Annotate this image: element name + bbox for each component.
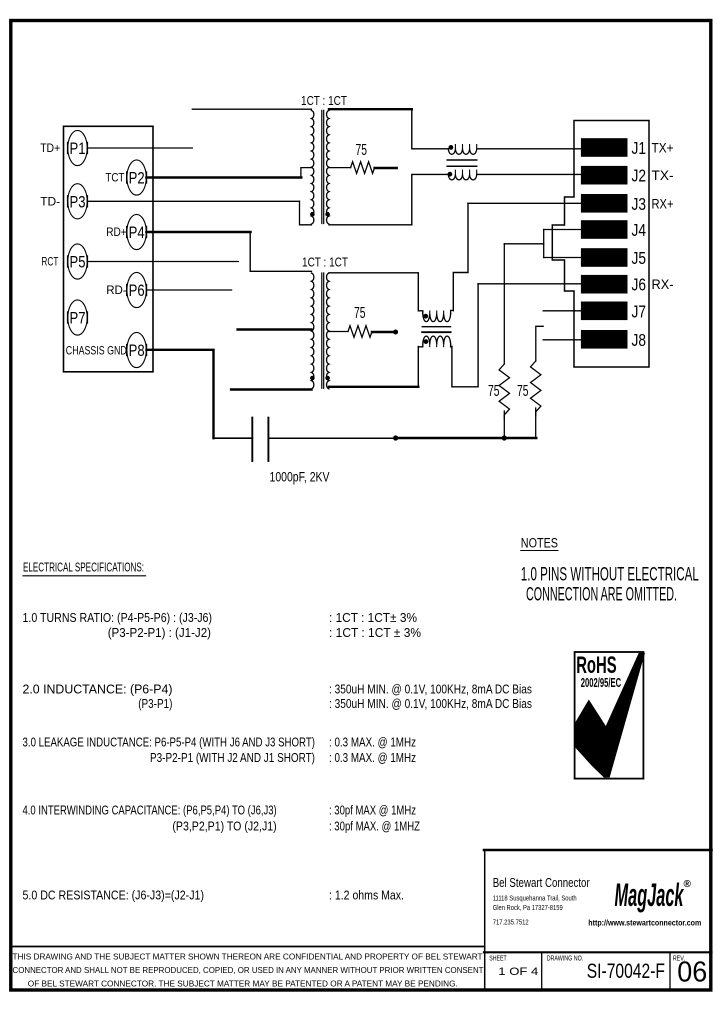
svg-text:J4: J4	[632, 220, 647, 240]
T2 primary phase dot	[310, 376, 315, 381]
svg-text:RD-: RD-	[106, 283, 127, 297]
svg-text:4.0 INTERWINDING CAPACITANCE:: 4.0 INTERWINDING CAPACITANCE: (P6,P5,P4)…	[23, 804, 277, 818]
T1 secondary phase dot	[325, 212, 330, 217]
svg-text:RCT: RCT	[41, 255, 58, 269]
transformer T1 core	[322, 110, 324, 223]
svg-text:06: 06	[677, 957, 707, 989]
L1 top phase dot	[449, 145, 454, 150]
spec 5.0 dc resistance	[23, 889, 405, 903]
svg-text:: 1.2 ohms Max.: : 1.2 ohms Max.	[329, 889, 404, 903]
svg-text:J1: J1	[632, 138, 647, 158]
svg-text:P5: P5	[70, 253, 86, 272]
wire R4 hook	[536, 326, 543, 361]
R4 bottom lead	[535, 408, 537, 438]
choke L1 top coil ticks	[455, 145, 476, 149]
spec 4.0 interwinding capacitance line 2	[172, 820, 420, 834]
svg-text:DRAWING NO.: DRAWING NO.	[547, 956, 584, 963]
svg-text:TX-: TX-	[652, 167, 674, 183]
pin P3	[68, 184, 88, 219]
heading ELECTRICAL SPECIFICATIONS	[23, 561, 146, 576]
disclaimer box top edge	[11, 946, 484, 948]
T2 secondary phase dot	[325, 376, 330, 381]
pin P2	[127, 160, 147, 195]
svg-text:TCT: TCT	[105, 171, 125, 185]
svg-text:: 30pf MAX. @ 1MHZ: : 30pf MAX. @ 1MHZ	[329, 820, 420, 834]
wire P1 to T1 left top	[87, 147, 192, 149]
choke L2 core	[422, 326, 450, 328]
wire T1 sec bottom to choke	[329, 174, 448, 224]
choke L2 bottom right jog	[451, 344, 452, 347]
R3 bottom lead	[503, 411, 505, 438]
svg-text:11118 Susquehanna Trail, South: 11118 Susquehanna Trail, South	[493, 896, 577, 903]
R2 right stub (thick)	[372, 331, 393, 333]
contact J8	[581, 330, 646, 350]
svg-text:RX-: RX-	[652, 276, 674, 292]
choke L2 bottom coil	[423, 336, 451, 344]
svg-text:(P3,P2,P1) TO (J2,J1): (P3,P2,P1) TO (J2,J1)	[172, 820, 276, 834]
svg-text:Glen Rock, Pa 17327-8159: Glen Rock, Pa 17327-8159	[493, 905, 563, 912]
svg-text:1 OF 4: 1 OF 4	[498, 966, 538, 978]
wire T1 sec top to choke L1 (thick)	[329, 108, 412, 110]
svg-text:5.0 DC RESISTANCE: (J6-J3)=(J: 5.0 DC RESISTANCE: (J6-J3)=(J2-J1)	[23, 889, 205, 903]
capacitor C1 left plate	[251, 418, 253, 461]
choke L1 top coil	[448, 149, 476, 155]
choke L1 bottom coil	[448, 174, 476, 180]
connector P-block outline	[64, 126, 154, 371]
wire T2 left bottom (thick)	[231, 388, 311, 391]
svg-text:: 0.3 MAX. @ 1MHz: : 0.3 MAX. @ 1MHz	[329, 751, 416, 765]
svg-text:: 30pf MAX @ 1MHz: : 30pf MAX @ 1MHz	[329, 804, 416, 818]
svg-text:1CT : 1CT: 1CT : 1CT	[301, 93, 347, 108]
svg-text:SI-70042-F: SI-70042-F	[587, 960, 665, 983]
transformer T1 secondary winding	[327, 110, 329, 224]
wire P4 corner down to T2	[250, 232, 311, 271]
svg-text:P3-P2-P1 (WITH J2 AND J1 SHORT: P3-P2-P1 (WITH J2 AND J1 SHORT)	[150, 751, 315, 765]
pin P8	[127, 332, 147, 367]
wire capacitor to node	[268, 437, 395, 439]
node dot at R2 stub	[393, 330, 398, 335]
contact J2	[581, 166, 646, 186]
wire T1 sec top corner to choke	[412, 109, 449, 149]
svg-text:CONNECTOR AND SHALL NOT BE REP: CONNECTOR AND SHALL NOT BE REPRODUCED, C…	[13, 965, 484, 975]
svg-text:75: 75	[356, 142, 368, 159]
svg-text:MagJack: MagJack	[615, 877, 685, 913]
svg-text:: 1CT : 1CT± 3%: : 1CT : 1CT± 3%	[329, 611, 417, 625]
wire T1 left bottom step	[300, 201, 312, 225]
svg-text:Bel Stewart Connector: Bel Stewart Connector	[493, 875, 590, 890]
svg-text:3.0 LEAKAGE INDUCTANCE: P6-P: 3.0 LEAKAGE INDUCTANCE: P6-P5-P4 (WITH J…	[23, 736, 316, 750]
wire P5 stub	[87, 261, 238, 263]
svg-text:J7: J7	[632, 301, 647, 321]
svg-text:P1: P1	[70, 139, 86, 158]
choke L2 bottom coil ticks	[430, 344, 451, 347]
wire R3 top lead	[503, 244, 505, 364]
resistor R4 75 ohm	[531, 361, 541, 416]
R1 right stub (thick)	[375, 167, 397, 169]
contact J4	[581, 220, 646, 240]
pin P7	[68, 300, 88, 335]
contact J6	[581, 275, 646, 295]
contact J3	[581, 194, 646, 214]
T1 primary phase dot	[310, 212, 315, 217]
svg-text:J2: J2	[632, 166, 647, 186]
svg-text:J8: J8	[632, 330, 647, 350]
spec 2.0 inductance line 2	[138, 697, 532, 711]
svg-text:NOTES: NOTES	[521, 536, 558, 551]
wire R3 top to J4/J5 bracket	[504, 243, 543, 245]
node dot capacitor bus	[393, 435, 398, 440]
wire T2 sec tap to R2	[329, 331, 348, 333]
wire T1 left top lead	[192, 108, 311, 110]
svg-text:P6: P6	[129, 281, 145, 300]
svg-text:1CT : 1CT: 1CT : 1CT	[302, 255, 348, 270]
spec 1.0 turns ratio line 2	[108, 626, 421, 640]
choke L2 top coil	[423, 314, 451, 322]
wire T1 sec tap to R1	[329, 167, 351, 169]
svg-text:P2: P2	[129, 169, 145, 188]
wire choke L2 top right to J3	[453, 203, 468, 310]
wire P6 stub	[147, 289, 232, 291]
pin P1	[68, 130, 88, 165]
svg-text:J3: J3	[632, 194, 647, 214]
wire P8 chassis to capacitor (thick)	[147, 350, 214, 438]
svg-text:: 350uH MIN. @ 0.1V, 100KHz,: : 350uH MIN. @ 0.1V, 100KHz, 8mA DC Bias	[329, 683, 532, 697]
resistor R1 75 ohm	[351, 162, 375, 174]
choke L2 bottom left jog	[418, 344, 423, 347]
contact J7	[581, 301, 646, 321]
svg-text:P4: P4	[129, 223, 145, 242]
choke L1 core	[447, 160, 477, 166]
connector J-block outline with jogged left edge	[552, 121, 649, 368]
choke L2 top right jog	[451, 310, 454, 313]
wire T2 left center tap (thick)	[238, 328, 312, 331]
svg-text:http://www.stewartconnector.co: http://www.stewartconnector.com	[588, 919, 701, 928]
contact J5	[581, 248, 646, 268]
svg-text:ELECTRICAL SPECIFICATIONS:: ELECTRICAL SPECIFICATIONS:	[23, 561, 144, 575]
svg-text:: 0.3 MAX. @ 1MHz: : 0.3 MAX. @ 1MHz	[329, 736, 416, 750]
svg-text:P8: P8	[129, 341, 145, 360]
wire termination bus (thick)	[396, 437, 537, 440]
MagJack logo	[615, 877, 692, 913]
svg-text:2002/95/EC: 2002/95/EC	[581, 675, 622, 690]
wire J6	[478, 283, 581, 285]
svg-text:CHASSIS GND: CHASSIS GND	[66, 344, 127, 358]
pin P6	[127, 272, 147, 307]
contact J1	[581, 138, 646, 158]
svg-text:1000pF, 2KV: 1000pF, 2KV	[270, 469, 330, 485]
svg-text:CONNECTION ARE OMITTED.: CONNECTION ARE OMITTED.	[526, 585, 677, 606]
svg-text:TD+: TD+	[40, 141, 60, 155]
svg-text:RD+: RD+	[106, 225, 127, 239]
transformer T1 primary winding	[311, 110, 313, 224]
wire P2 to T1 center tap (thick)	[147, 176, 302, 179]
capacitor C1 right plate	[267, 418, 269, 461]
svg-text:1.0 PINS WITHOUT ELECTRICAL: 1.0 PINS WITHOUT ELECTRICAL	[521, 565, 699, 586]
svg-text:: 1CT : 1CT ± 3%: : 1CT : 1CT ± 3%	[329, 626, 421, 640]
wire J5	[544, 257, 581, 259]
transformer T2 primary winding	[311, 273, 313, 389]
wire J8	[543, 339, 581, 341]
wire J4-J5 bracket	[543, 230, 545, 258]
heading NOTES	[521, 536, 558, 551]
wire P3 to T1 left bottom	[87, 200, 299, 202]
svg-text:75: 75	[517, 383, 529, 400]
wire choke L1 to J1	[477, 148, 581, 150]
wire P4 to T2 top (thick)	[147, 231, 251, 234]
wire choke L1 to J2	[477, 173, 581, 175]
spec 3.0 leakage inductance line 1	[23, 736, 417, 750]
svg-text:(P3-P1): (P3-P1)	[138, 697, 172, 711]
svg-text:J6: J6	[632, 275, 647, 295]
svg-text:TX+: TX+	[652, 140, 674, 156]
RoHS checkmark	[575, 653, 645, 778]
title block outline	[484, 850, 712, 990]
wire J7	[543, 310, 581, 312]
transformer T2 core	[322, 273, 324, 388]
svg-text:OF BEL STEWART CONNECTOR. THE: OF BEL STEWART CONNECTOR. THE SUBJECT MA…	[28, 979, 458, 989]
choke L2 top coil ticks	[430, 311, 451, 314]
wire J4	[544, 229, 581, 231]
transformer T2 secondary winding	[327, 273, 329, 389]
resistor R3 75 ohm	[499, 364, 509, 419]
svg-text:P3: P3	[70, 192, 86, 211]
svg-text:P7: P7	[70, 309, 86, 328]
wire T2 sec top to choke L2	[329, 273, 423, 314]
wire capacitor left lead	[214, 437, 253, 439]
wire T1 left tap step	[301, 168, 312, 178]
RoHS logo box	[575, 652, 644, 779]
spec 3.0 leakage inductance line 2	[150, 751, 416, 765]
spec 1.0 turns ratio line 1	[23, 611, 418, 625]
svg-text:SHEET: SHEET	[489, 956, 507, 963]
L2 top phase dot	[423, 314, 428, 319]
resistor R2 75 ohm	[348, 326, 372, 338]
wire J3	[468, 202, 581, 204]
L2 bottom phase dot	[424, 339, 429, 344]
svg-text:75: 75	[488, 383, 500, 400]
svg-text:2.0 INDUCTANCE: (P6-P4): 2.0 INDUCTANCE: (P6-P4)	[23, 683, 173, 697]
spec 4.0 interwinding capacitance line 1	[23, 804, 417, 818]
svg-text:: 350uH MIN. @ 0.1V, 100KHz,: : 350uH MIN. @ 0.1V, 100KHz, 8mA DC Bias	[329, 697, 532, 711]
pin P4	[127, 214, 147, 249]
svg-text:1.0 TURNS RATIO: (P4-P5-P6) :: 1.0 TURNS RATIO: (P4-P5-P6) : (J3-J6)	[23, 611, 213, 625]
choke L1 bottom coil ticks	[455, 170, 476, 174]
svg-text:(P3-P2-P1) : (J1-J2): (P3-P2-P1) : (J1-J2)	[108, 626, 211, 640]
L1 bottom phase dot	[448, 172, 453, 177]
svg-text:RX+: RX+	[652, 195, 674, 211]
wire choke L2 bottom left lead	[417, 347, 419, 387]
wire T2 sec bottom to choke L2 (thick)	[329, 386, 418, 388]
svg-text:THIS DRAWING AND THE SUBJECT M: THIS DRAWING AND THE SUBJECT MATTER SHOW…	[13, 952, 483, 962]
wire choke L2 bottom right to J6	[452, 284, 478, 387]
svg-text:75: 75	[354, 305, 366, 322]
svg-text:TD-: TD-	[40, 194, 60, 208]
node dot R3 bus	[502, 435, 507, 440]
spec 2.0 inductance line 1	[23, 683, 533, 697]
svg-text:J5: J5	[632, 248, 647, 268]
svg-text:717.235.7512: 717.235.7512	[493, 920, 529, 927]
pin P5	[68, 244, 88, 279]
svg-text:®: ®	[684, 879, 692, 890]
